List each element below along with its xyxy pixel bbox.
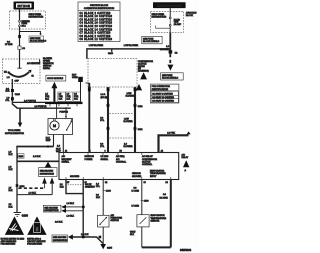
svg-text:BLK: BLK <box>96 197 101 199</box>
svg-text:WHT: WHT <box>46 140 51 142</box>
svg-text:C201: C201 <box>138 106 144 108</box>
svg-text:JUNCTION BLOCK: JUNCTION BLOCK <box>90 5 109 7</box>
svg-text:BLK: BLK <box>130 234 135 236</box>
svg-text:DISTRIBUTION: DISTRIBUTION <box>44 210 59 212</box>
svg-text:HOT IN ON AND START: HOT IN ON AND START <box>157 5 182 8</box>
svg-text:CONNECTOR IDENTIFICATION: CONNECTOR IDENTIFICATION <box>84 7 115 10</box>
svg-text:DISTRIBUTION: DISTRIBUTION <box>29 17 44 19</box>
svg-text:B8: B8 <box>120 151 122 153</box>
svg-text:BLK: BLK <box>9 154 14 156</box>
svg-text:B7: B7 <box>67 182 69 184</box>
svg-text:IDENTIFICATION: IDENTIFICATION <box>152 88 169 91</box>
svg-text:C220: C220 <box>15 94 21 96</box>
svg-text:GROUND: GROUND <box>70 176 80 178</box>
svg-text:C8: C8 <box>144 182 146 184</box>
svg-text:HOT IN ON: HOT IN ON <box>18 5 31 8</box>
svg-text:BLK: BLK <box>9 207 14 209</box>
svg-text:MOTOR RESISTOR: MOTOR RESISTOR <box>5 133 24 135</box>
svg-text:BLK: BLK <box>9 169 14 171</box>
svg-text:II: II <box>35 226 39 233</box>
svg-text:BLOCK DETAILS: BLOCK DETAILS <box>162 77 179 80</box>
svg-text:1.0 BLK: 1.0 BLK <box>29 192 37 194</box>
svg-text:BLOCK DETAILS: BLOCK DETAILS <box>143 40 160 43</box>
svg-text:C4 BLACK 10 CAVITIES: C4 BLACK 10 CAVITIES <box>80 22 113 25</box>
svg-text:DK GRN: DK GRN <box>160 197 169 199</box>
svg-text:C5 BLACK 20 CAVITIES: C5 BLACK 20 CAVITIES <box>80 25 113 28</box>
svg-text:INPUT: INPUT <box>150 176 157 178</box>
svg-text:LOW: LOW <box>124 119 129 121</box>
svg-text:TEMPERATURE: TEMPERATURE <box>151 217 167 220</box>
svg-text:SEE FUSE: SEE FUSE <box>143 39 154 41</box>
svg-text:BLOWER: BLOWER <box>124 121 134 123</box>
svg-text:1.0 PURPLE: 1.0 PURPLE <box>35 106 47 108</box>
svg-text:BLOWER: BLOWER <box>126 96 136 98</box>
svg-text:1.0 A: 1.0 A <box>101 93 106 96</box>
svg-text:SIGNAL: SIGNAL <box>62 160 70 163</box>
svg-text:1.0 BLK: 1.0 BLK <box>67 203 75 205</box>
svg-text:GOOD MODULE: GOOD MODULE <box>47 78 63 80</box>
svg-text:LOW BLOWER: LOW BLOWER <box>124 45 139 47</box>
svg-text:C6 BLACK 14 CAVITIES: C6 BLACK 14 CAVITIES <box>80 28 113 31</box>
svg-text:A1: A1 <box>161 150 163 153</box>
svg-text:SWITCH: SWITCH <box>111 220 120 222</box>
svg-text:86W0364: 86W0364 <box>180 248 192 252</box>
svg-text:PROCEDURES: PROCEDURES <box>1 244 16 246</box>
svg-text:PROCEDURES: PROCEDURES <box>27 244 42 246</box>
svg-text:AND HANDLING: AND HANDLING <box>1 240 17 243</box>
svg-text:BLK: BLK <box>60 186 65 188</box>
svg-text:2.0 BLK: 2.0 BLK <box>55 222 63 224</box>
svg-text:BLK: BLK <box>46 138 51 140</box>
svg-text:A/C REQ: A/C REQ <box>116 155 125 158</box>
svg-text:GROUND: GROUND <box>132 176 142 178</box>
svg-text:POWER: POWER <box>85 159 93 161</box>
svg-text:EVAPORATOR: EVAPORATOR <box>150 170 165 173</box>
svg-text:OFF: OFF <box>15 80 20 82</box>
svg-text:A/C: A/C <box>182 153 186 156</box>
svg-text:SEE GROUND: SEE GROUND <box>53 237 67 239</box>
svg-text:LT GRN: LT GRN <box>5 44 13 46</box>
svg-text:1.0 PURPLE: 1.0 PURPLE <box>24 100 36 102</box>
svg-text:25 A: 25 A <box>22 25 27 28</box>
svg-text:PURPLE: PURPLE <box>60 111 69 113</box>
svg-text:A/C: A/C <box>111 214 115 217</box>
svg-text:M: M <box>53 124 56 128</box>
svg-text:D4: D4 <box>166 182 168 184</box>
svg-text:LT GRN: LT GRN <box>132 190 140 192</box>
svg-text:SENSOR: SENSOR <box>151 220 160 222</box>
svg-text:DISTRIBUTION: DISTRIBUTION <box>40 174 55 176</box>
svg-text:CONTROL: CONTROL <box>116 161 127 163</box>
svg-text:TEMPERATURE: TEMPERATURE <box>150 172 166 175</box>
svg-text:LOW BLOWER: LOW BLOWER <box>89 45 104 47</box>
svg-text:C7 BLACK 9 CAVITIES: C7 BLACK 9 CAVITIES <box>80 32 111 35</box>
svg-text:DISTRIBUTION: DISTRIBUTION <box>53 240 68 242</box>
svg-text:8: 8 <box>105 151 106 153</box>
svg-text:C3 BLACK 14 CAVITIES: C3 BLACK 14 CAVITIES <box>80 18 113 21</box>
svg-text:RELAY: RELAY <box>182 156 189 159</box>
svg-text:SEE GROUND: SEE GROUND <box>44 207 58 209</box>
svg-text:BLOCK DETAILS: BLOCK DETAILS <box>30 39 47 42</box>
svg-text:C1 BLACK 2 CAVITIES: C1 BLACK 2 CAVITIES <box>80 12 111 15</box>
svg-text:A/C: A/C <box>62 155 66 158</box>
svg-text:LOW: LOW <box>127 93 132 95</box>
svg-text:C100: C100 <box>144 200 150 202</box>
svg-text:BLK: BLK <box>6 91 11 93</box>
svg-text:1.0 PNK: 1.0 PNK <box>167 133 175 135</box>
svg-text:1.0 BLK: 1.0 BLK <box>33 156 41 158</box>
svg-text:LT GRN: LT GRN <box>132 206 140 208</box>
svg-text:25 AMP: 25 AMP <box>174 23 182 26</box>
svg-text:C2 BLACK 10 CAVITIES: C2 BLACK 10 CAVITIES <box>80 15 113 18</box>
svg-text:BLK: BLK <box>9 190 14 192</box>
svg-text:DETAIL: DETAIL <box>43 67 51 70</box>
svg-text:S206: S206 <box>108 53 114 55</box>
svg-text:DISTRIBUTION: DISTRIBUTION <box>152 16 167 18</box>
svg-text:C8 BLACK 2 CAVITIES: C8 BLACK 2 CAVITIES <box>80 35 111 38</box>
svg-text:A/C HEATER: A/C HEATER <box>27 62 40 65</box>
svg-text:G105: G105 <box>107 247 113 249</box>
svg-text:C9 BLACK 12 CAVITIES: C9 BLACK 12 CAVITIES <box>80 38 113 41</box>
svg-text:1.0 BLK: 1.0 BLK <box>67 216 75 218</box>
svg-text:C1 GRAY 2 CAVITIES: C1 GRAY 2 CAVITIES <box>152 92 173 95</box>
svg-text:C201: C201 <box>138 129 144 131</box>
svg-text:REFER SEC 2: REFER SEC 2 <box>27 238 41 240</box>
svg-text:G200: G200 <box>22 215 29 218</box>
svg-text:LO: LO <box>7 77 10 79</box>
svg-text:D2: D2 <box>105 182 107 184</box>
svg-text:A/C: A/C <box>116 158 120 161</box>
svg-text:C2 GRAY 16 CAVITIES: C2 GRAY 16 CAVITIES <box>152 96 174 99</box>
svg-text:CONTROL: CONTROL <box>142 164 153 166</box>
svg-text:C100: C100 <box>106 190 112 192</box>
svg-text:CIRCUIT SERVICE: CIRCUIT SERVICE <box>27 241 46 243</box>
svg-text:GRN/WHT: GRN/WHT <box>85 186 96 188</box>
svg-text:SIGNAL: SIGNAL <box>101 158 109 161</box>
svg-text:HARNESS): HARNESS) <box>138 70 149 73</box>
svg-text:C3 GRAY 10 CAVITIES: C3 GRAY 10 CAVITIES <box>152 100 174 103</box>
svg-text:14: 14 <box>65 151 67 153</box>
svg-text:SEE GROUND: SEE GROUND <box>40 170 54 172</box>
svg-text:6: 6 <box>90 151 91 153</box>
svg-text:(PALE): (PALE) <box>101 96 108 99</box>
svg-text:USED: USED <box>72 77 78 79</box>
svg-text:NOTICE REFER TO ESD: NOTICE REFER TO ESD <box>1 238 25 240</box>
svg-text:EVAPORATOR: EVAPORATOR <box>151 214 166 217</box>
svg-text:BLOCK: BLOCK <box>186 15 194 17</box>
svg-text:A/C RELAY: A/C RELAY <box>142 155 153 158</box>
svg-text:BLOWER: BLOWER <box>124 146 134 148</box>
